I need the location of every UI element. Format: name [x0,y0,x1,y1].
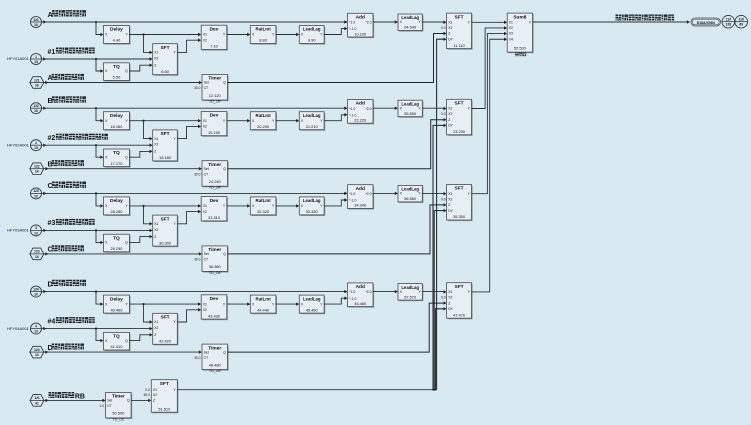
transfer switch SFT 30.300 [154,216,179,247]
svg-text:18.180: 18.180 [159,155,172,160]
leadlag block LeadLag 9.90 [300,27,325,45]
svg-text:30.0: 30.0 [194,86,201,90]
wire feeder 3 rate spine [43,229,46,232]
timer block Timer 36.360 TD_Off [203,247,229,273]
adder Add 34.340 [344,192,346,194]
svg-text:Timer: Timer [208,76,221,82]
rate limiter RatLmt 44.440 [251,296,277,314]
svg-text:Z: Z [153,399,155,403]
svg-text:123: 123 [33,189,39,193]
svg-text:Z: Z [448,32,450,36]
rate limiter RatLmt 8.80 [251,27,277,45]
wire Add C to LeadLag2 [373,192,395,194]
wire Timer A Q to SFT Z [228,34,444,83]
timer block Timer 24.240 TD_Off [203,162,229,188]
svg-text:121: 121 [34,78,40,82]
svg-text:*1.0: *1.0 [349,107,355,111]
svg-text:SFT: SFT [160,315,169,321]
svg-text:20.200: 20.200 [257,124,270,129]
wire LeadLag2 A to SFT X1 [422,21,443,23]
wire Add D to LeadLag2 [373,291,395,293]
svg-text:LeadLag: LeadLag [401,187,419,192]
node output connector 119/128 [722,15,735,28]
svg-text:Timer: Timer [208,247,221,253]
svg-text:DY: DY [448,209,453,213]
svg-text:4.40: 4.40 [113,38,121,43]
svg-text:TD_On: TD_On [113,417,125,421]
svg-text:RatLmt: RatLmt [256,27,272,32]
node A feeder running hexagon 121/16 [30,77,44,89]
svg-text:Q: Q [127,399,130,403]
wire TQ C to SFT Z [129,237,149,243]
wire C fuel demand spine [43,192,46,195]
deviation block Dev 43.430 [202,296,228,320]
wire Delay B to SFT X1 [144,121,150,139]
svg-text:9.90: 9.90 [308,38,316,43]
timer block Timer 12.120 TD_Off [203,76,229,102]
svg-text:0.0: 0.0 [145,388,150,392]
svg-text:56.560: 56.560 [404,196,417,201]
svg-text:Set: Set [107,399,112,403]
wire SFT A to Dev X2 [177,40,198,52]
svg-text:X2: X2 [448,112,452,116]
svg-text:Add: Add [356,186,365,192]
svg-text:X2: X2 [448,296,452,300]
adder Add 22.220 [344,107,346,109]
svg-text:DY: DY [448,124,453,128]
node feeder 2 rate input connector 2/15 [31,140,42,151]
svg-text:SFT: SFT [455,284,464,290]
svg-text:10: 10 [34,194,38,198]
svg-text:Z: Z [154,150,156,154]
leadlag block LeadLag 54.540 [399,15,423,32]
svg-text:30.0: 30.0 [194,258,201,262]
svg-text:Add: Add [356,101,365,107]
svg-text:Q: Q [125,241,128,245]
svg-text:X3: X3 [509,32,513,36]
wire Dev A to RatLmt [227,34,247,36]
svg-text:RatLmt: RatLmt [256,296,272,301]
svg-text:Dev: Dev [210,113,219,119]
output switch SFT 35.350 [448,186,473,222]
svg-text:10: 10 [34,109,38,113]
wire Delay A output [130,34,199,36]
svg-text:RatLmt: RatLmt [256,113,272,118]
junction DY bus taps [432,389,434,391]
svg-text:#1: #1 [48,49,56,56]
svg-text:16: 16 [35,84,39,88]
svg-text:0.0: 0.0 [441,296,446,300]
label averaging note below Sum8 [515,53,518,57]
svg-text:TQ: TQ [113,334,120,340]
svg-text:19.190: 19.190 [208,130,221,135]
svg-text:TD_Off: TD_Off [209,99,221,103]
svg-text:22.220: 22.220 [354,118,367,123]
svg-text:TD_Off: TD_Off [209,271,221,275]
node feeder 3 rate input connector 3/13 [31,225,42,236]
svg-text:X2: X2 [154,143,158,147]
wire SFT D to Dev X2 [177,310,198,322]
node feeder 1 rate input connector 1/15 [31,54,42,65]
svg-text:24.240: 24.240 [209,179,222,184]
svg-text:55.550: 55.550 [404,111,417,116]
svg-text:SFT: SFT [160,45,169,51]
node C fuel demand input connector 123/10 [31,188,42,199]
svg-text:41: 41 [35,401,39,405]
svg-text:X1: X1 [203,119,207,123]
svg-text:Add: Add [356,15,365,21]
wire branch to Delay D [95,291,97,293]
svg-text:29.290: 29.290 [110,246,123,251]
svg-text:Z: Z [448,118,450,122]
wire branch to TQ D [95,328,97,330]
wire LeadLag A to Add [324,29,344,35]
svg-text:14: 14 [35,170,39,174]
svg-text:X1: X1 [154,137,158,141]
svg-text:Q: Q [125,339,128,343]
wire RB Timer Q to SFT Z [131,399,148,401]
wire branch to TQ B [95,144,97,146]
node A fuel demand input connector 121/10 [31,17,42,28]
deviation block Dev 7.10 [202,26,228,50]
svg-text:3: 3 [35,226,37,230]
wire branch to TQ A [95,58,97,60]
svg-text:Z: Z [448,301,450,305]
delay block Delay 40.400 [105,296,131,314]
svg-text:10.100: 10.100 [354,31,367,36]
svg-text:Q: Q [223,350,226,354]
svg-text:SFT: SFT [455,186,464,192]
svg-text:*1.0: *1.0 [349,192,355,196]
svg-text:Z: Z [154,63,156,67]
node output tag D18A/X084 [691,18,721,26]
wire Add A to LeadLag2 [373,21,395,23]
svg-text:Delay: Delay [110,296,123,302]
node D fuel demand input connector 124/10 [31,286,42,297]
svg-text:30.0: 30.0 [194,172,201,176]
svg-text:Timer: Timer [112,394,125,400]
wire RatLmt D to LeadLag [276,303,296,305]
svg-text:14: 14 [35,353,39,357]
svg-text:Q: Q [223,81,226,85]
svg-text:SFT: SFT [455,101,464,107]
svg-text:Set: Set [204,252,209,256]
svg-text:Dev: Dev [210,26,219,32]
svg-text:X2: X2 [448,26,452,30]
node feeder 4 rate input connector 4/13 [31,323,42,334]
wire Sum8 Y to output [533,21,687,23]
wire Add B to LeadLag2 [373,107,395,109]
leadlag block LeadLag 33.330 [300,198,325,216]
svg-text:TD_Off: TD_Off [209,369,221,373]
RB transfer switch SFT 51.510 [152,381,178,414]
svg-text:*2.0: *2.0 [365,21,371,25]
svg-text:TD_Off: TD_Off [209,186,221,190]
svg-text:13: 13 [34,330,38,334]
svg-text:HFY04A001: HFY04A001 [7,326,30,331]
leadlag block LeadLag 21.210 [300,113,325,131]
svg-text:34.340: 34.340 [354,203,367,208]
wire branch to TQ C [95,229,97,231]
svg-text:*2.0: *2.0 [365,290,371,294]
svg-text:CT: CT [204,258,209,262]
svg-text:124: 124 [34,348,40,352]
svg-text:13: 13 [34,231,38,235]
svg-text:47.470: 47.470 [453,312,466,317]
svg-text:X2: X2 [154,228,158,232]
svg-text:Dev: Dev [210,198,219,204]
svg-text:SFT: SFT [455,14,464,20]
svg-text:LeadLag: LeadLag [303,198,321,203]
wire C running spine to Timer Set [45,252,48,255]
svg-text:X1: X1 [153,388,157,392]
svg-text:46.460: 46.460 [354,301,367,306]
timer block Timer 48.480 TD_Off [203,345,229,371]
node D feeder running hexagon 124/14 [30,346,44,358]
node B feeder running hexagon 122/14 [30,163,44,175]
wire RatLmt A to LeadLag [276,34,296,36]
svg-text:Delay: Delay [110,27,123,33]
svg-text:*1.0: *1.0 [349,21,355,25]
svg-text:10: 10 [34,293,38,297]
wire B fuel demand spine [43,107,46,110]
svg-text:Q: Q [125,69,128,73]
svg-text:Sum8: Sum8 [513,14,526,20]
svg-text:X2: X2 [154,56,158,60]
wire branch to Delay C [95,192,97,194]
svg-text:X1: X1 [203,33,207,37]
svg-text:Q: Q [223,252,226,256]
leadlag block LeadLag 55.550 [399,101,423,118]
wire LeadLag2 C to SFT X1 [422,192,443,194]
svg-text:*2.0: *2.0 [365,107,371,111]
timer block Timer 50.500 TD_On [107,394,133,420]
svg-text:21.210: 21.210 [306,124,319,129]
node output connector 119/69 [735,15,748,28]
svg-text:X1: X1 [154,222,158,226]
svg-text:45.450: 45.450 [306,307,319,312]
svg-text:35.350: 35.350 [453,214,466,219]
svg-text:8.80: 8.80 [259,38,267,43]
svg-text:50.0: 50.0 [144,393,151,397]
leadlag block LeadLag 57.570 [399,285,423,302]
svg-text:54.540: 54.540 [404,25,417,30]
svg-text:LeadLag: LeadLag [401,285,419,290]
svg-text:119: 119 [726,18,731,22]
quality block TQ 41.410 [105,334,131,352]
transfer switch SFT 6.60 [154,45,179,76]
svg-text:40.400: 40.400 [110,307,123,312]
svg-text:11.110: 11.110 [453,43,465,48]
wire RB bus to SFT A DY [437,39,444,390]
svg-text:X2: X2 [448,197,452,201]
output switch SFT 11.110 [448,14,473,50]
wire Delay A to SFT X1 [144,35,150,53]
svg-text:15: 15 [34,60,38,64]
svg-text:*-1.0: *-1.0 [349,113,356,117]
svg-text:D18A/X084: D18A/X084 [697,21,715,25]
svg-text:CT: CT [107,404,112,408]
svg-text:DY: DY [448,307,453,311]
deviation block Dev 19.190 [202,113,228,137]
svg-text:0.0: 0.0 [441,197,446,201]
delay block Delay 16.160 [105,113,131,131]
wire RB bus to SFT C DY [434,211,443,390]
svg-text:X2: X2 [203,125,207,129]
wire Dev B to RatLmt [227,120,247,122]
svg-text:2: 2 [35,141,37,145]
output switch SFT 47.470 [448,284,473,320]
node C feeder running hexagon 123/14 [30,248,44,260]
adder Add 46.460 [344,291,346,293]
wire Timer B Q to SFT Z [228,120,444,169]
wire D running spine to Timer Set [45,350,48,353]
svg-text:X2: X2 [203,210,207,214]
wire SFT D Y to Sum8 X4 [472,39,504,292]
output switch SFT 23.230 [448,100,473,135]
svg-text:30.0: 30.0 [194,356,201,360]
svg-text:42.420: 42.420 [159,339,172,344]
wire SFT B Y to Sum8 X2 [472,28,504,109]
svg-text:122: 122 [34,165,40,169]
svg-text:DY: DY [448,37,453,41]
svg-text:X4: X4 [509,37,513,41]
svg-text:123: 123 [34,250,40,254]
wire SFT B to Dev X2 [177,126,198,138]
wire Delay B output [130,120,199,122]
svg-text:23.230: 23.230 [453,129,466,134]
svg-text:33.330: 33.330 [306,209,319,214]
svg-text:RatLmt: RatLmt [256,198,272,203]
wire Delay C output [130,205,199,207]
wire Delay D to SFT X1 [144,304,150,322]
svg-text:RB: RB [75,393,85,400]
wire B running spine to Timer Set [45,167,48,170]
svg-text:X1: X1 [203,302,207,306]
svg-text:Set: Set [204,81,209,85]
wire LeadLag2 D to SFT X1 [422,291,443,293]
svg-text:Set: Set [204,167,209,171]
svg-text:X1: X1 [448,21,452,25]
wire A running spine to Timer Set [45,81,48,84]
leadlag block LeadLag 45.450 [300,296,325,314]
svg-text:Dev: Dev [210,296,219,302]
svg-text:121: 121 [33,18,39,22]
delay block Delay 28.280 [105,198,131,216]
wire Timer D Q to SFT Z [228,303,444,352]
wire feeder 2 rate spine [43,144,46,147]
wire RB spine to Timer Set [46,399,49,402]
svg-text:X1: X1 [448,192,452,196]
svg-text:X2: X2 [154,326,158,330]
svg-text:X1: X1 [154,51,158,55]
wire RB SFT Y to DY bus [177,389,436,391]
svg-text:0.0: 0.0 [441,112,446,116]
rate limiter RatLmt 20.200 [251,113,277,131]
svg-text:41.410: 41.410 [110,344,123,349]
svg-text:*-1.0: *-1.0 [349,297,356,301]
svg-text:LeadLag: LeadLag [401,101,419,106]
svg-text:LeadLag: LeadLag [303,113,321,118]
wire Dev C to RatLmt [227,205,247,207]
wire feeder 4 rate spine [43,327,46,330]
node B fuel demand input connector 122/10 [31,103,42,114]
quality block TQ 5.50 [105,64,131,82]
wire LeadLag C to Add [324,200,344,206]
svg-text:119: 119 [739,18,744,22]
svg-text:X1: X1 [448,290,452,294]
wire branch to Delay A [95,21,97,23]
svg-text:14: 14 [35,255,39,259]
svg-text:Q: Q [125,155,128,159]
svg-text:*2.0: *2.0 [365,192,371,196]
svg-text:16.160: 16.160 [110,124,123,129]
svg-text:SFT: SFT [160,216,169,222]
svg-text:30.300: 30.300 [159,240,172,245]
svg-text:5.50: 5.50 [113,75,121,80]
svg-text:HFY02A001: HFY02A001 [7,142,30,147]
svg-text:Add: Add [356,284,365,290]
wire TQ A to SFT Z [129,65,149,71]
svg-text:Set: Set [204,350,209,354]
svg-text:Delay: Delay [110,198,123,204]
svg-text:X1: X1 [448,107,452,111]
wire branch to Delay B [95,107,97,109]
svg-text:51.510: 51.510 [158,406,171,411]
wire RatLmt C to LeadLag [276,205,296,207]
svg-text:SFT: SFT [160,131,169,137]
svg-text:28.280: 28.280 [110,209,123,214]
svg-text:Z: Z [154,333,156,337]
svg-text:#2: #2 [48,135,56,142]
quality block TQ 17.170 [105,150,131,168]
svg-text:LeadLag: LeadLag [303,27,321,32]
svg-text:Timer: Timer [208,345,221,351]
svg-text:15: 15 [34,146,38,150]
svg-text:10: 10 [34,23,38,27]
svg-text:Timer: Timer [208,162,221,168]
wire RB bus to SFT D DY [435,309,443,390]
svg-text:LeadLag: LeadLag [401,15,419,20]
wire TQ B to SFT Z [129,151,149,157]
svg-text:4: 4 [35,324,37,328]
adder Add 10.100 [344,21,346,23]
svg-text:50.500: 50.500 [112,411,125,416]
svg-text:*1.0: *1.0 [349,290,355,294]
wire A fuel demand spine [43,20,46,23]
svg-text:HFY03A001: HFY03A001 [7,228,30,233]
svg-text:7.10: 7.10 [210,44,218,49]
wire LeadLag B to Add [324,115,344,121]
deviation block Dev 31.310 [202,198,228,222]
transfer switch SFT 42.420 [154,314,179,345]
svg-text:#4: #4 [48,318,56,325]
svg-text:SFT: SFT [160,381,169,387]
wire feeder 1 rate spine [43,57,46,60]
svg-text:57.570: 57.570 [404,294,417,299]
svg-text:Z: Z [448,203,450,207]
svg-text:121: 121 [34,396,40,400]
wire D fuel demand spine [43,290,46,293]
svg-text:TQ: TQ [113,64,120,70]
wire SFT A Y to Sum8 X1 [472,21,504,23]
svg-text:Q: Q [223,167,226,171]
svg-text:1.0: 1.0 [100,404,105,408]
svg-text:17.170: 17.170 [110,161,123,166]
svg-text:LeadLag: LeadLag [303,296,321,301]
label left actual fuel feedback [616,15,622,21]
wire SFT C Y to Sum8 X3 [472,34,504,194]
